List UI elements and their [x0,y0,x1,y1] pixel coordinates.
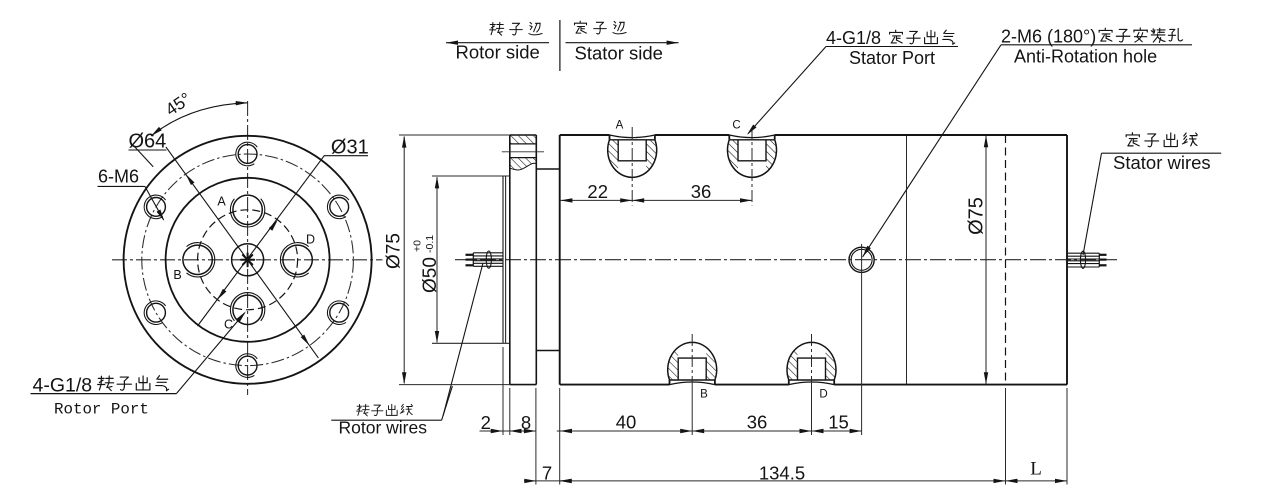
svg-text:Rotor side: Rotor side [456,42,540,63]
svg-text:Ø75: Ø75 [384,233,405,269]
svg-text:C: C [732,120,740,132]
svg-text:40: 40 [616,411,637,432]
svg-text:15: 15 [828,411,849,432]
svg-text:Stator Port: Stator Port [849,48,935,68]
svg-text:134.5: 134.5 [759,462,805,483]
svg-text:7: 7 [542,462,552,483]
svg-text:4-G1/8: 4-G1/8 [826,28,881,48]
svg-text:6-M6: 6-M6 [98,167,139,187]
svg-text:+0: +0 [412,240,424,252]
svg-text:8: 8 [521,412,531,433]
svg-text:Anti-Rotation hole: Anti-Rotation hole [1014,47,1157,67]
svg-text:22: 22 [587,181,608,202]
svg-text:-0.1: -0.1 [424,235,436,253]
svg-text:D: D [306,233,315,247]
svg-text:36: 36 [691,181,712,202]
svg-text:Stator wires: Stator wires [1113,152,1211,173]
svg-text:D: D [819,388,827,400]
svg-text:2: 2 [481,412,491,433]
svg-text:Ø50: Ø50 [420,257,441,293]
svg-text:Ø64: Ø64 [129,130,167,152]
svg-text:Ø75: Ø75 [966,197,988,235]
svg-text:Rotor Port: Rotor Port [54,400,149,418]
svg-text:A: A [217,195,226,209]
svg-text:Stator side: Stator side [575,43,663,64]
svg-text:C: C [224,317,233,331]
svg-text:2-M6 (180°): 2-M6 (180°) [1001,27,1096,47]
svg-text:B: B [700,388,708,400]
svg-text:Rotor wires: Rotor wires [339,417,428,437]
svg-text:L: L [1030,459,1042,480]
svg-text:36: 36 [747,411,768,432]
svg-text:A: A [616,120,624,132]
svg-text:B: B [173,268,181,282]
